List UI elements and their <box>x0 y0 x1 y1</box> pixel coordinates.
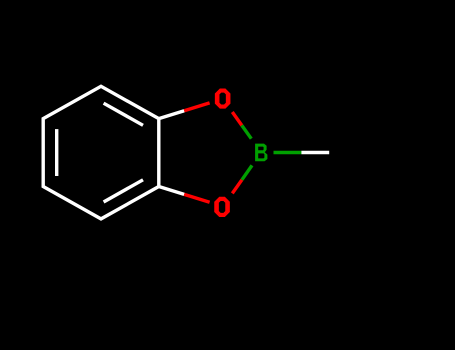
wire O2-B green half <box>242 165 252 179</box>
wire B-CH3 green half <box>274 151 302 154</box>
wire C2-O2 white half <box>159 187 184 195</box>
wire C1-O1 red half <box>184 103 209 111</box>
atom O1 <box>215 88 231 108</box>
double bond inner line C6=C1 <box>104 103 143 125</box>
benzene ring <box>43 86 159 219</box>
atom O2 <box>214 197 230 217</box>
double bond inner line C4=C5 <box>55 129 58 176</box>
atom B <box>255 144 267 162</box>
wire O1-B red half <box>232 112 242 125</box>
wire O2-B red half <box>232 180 242 194</box>
wire B-CH3 white half (methyl) <box>301 151 329 154</box>
wire C2-O2 red half <box>184 194 209 202</box>
wire C1-O1 white half <box>159 111 184 119</box>
wire O1-B green half <box>242 125 252 138</box>
double bond inner line C2=C3 <box>104 180 143 202</box>
